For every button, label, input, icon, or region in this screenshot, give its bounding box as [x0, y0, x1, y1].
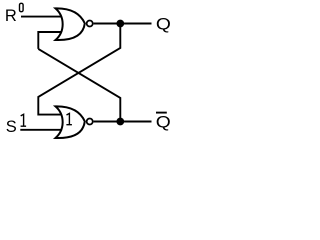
- output bubble U1: [87, 20, 93, 26]
- logic value 0 on input R: [20, 3, 24, 11]
- junction node Q: [116, 20, 124, 28]
- wire feedback diagonal Q-bar node to U1 side (left-top to right-bottom): [38, 49, 120, 122]
- logic value 1 on input S: [21, 114, 27, 126]
- wire R input: [21, 16, 61, 18]
- output bubble U2: [87, 118, 93, 124]
- NOR gate U2 (bottom): [56, 106, 85, 138]
- svg-text:R: R: [5, 7, 17, 25]
- svg-text:S: S: [6, 118, 17, 136]
- wire U1 lower input from left vertical: [38, 32, 61, 49]
- svg-text:Q: Q: [156, 113, 171, 131]
- svg-text:Q: Q: [156, 15, 171, 33]
- overline of Q-bar: [156, 112, 167, 114]
- junction node Q-bar: [116, 118, 124, 126]
- NOR gate U1 (top): [56, 8, 85, 40]
- wire S input: [20, 129, 61, 131]
- wire feedback diagonal Q node to U2 upper input: [38, 24, 120, 115]
- logic value 1 annotation inside U2: [66, 113, 72, 124]
- wire Q output: [94, 23, 152, 25]
- wire Q-bar output: [94, 121, 152, 123]
